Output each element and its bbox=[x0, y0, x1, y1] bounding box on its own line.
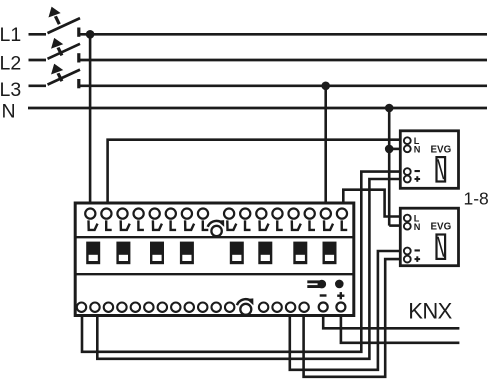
actuator top terminal 16 bbox=[337, 209, 347, 219]
breaker L2 trip arrow bbox=[57, 46, 62, 56]
actuator bottom terminal 5 bbox=[131, 303, 140, 312]
switching actuator U1 outline bbox=[75, 203, 354, 316]
actuator bottom terminal 14 bbox=[272, 303, 281, 312]
actuator channel switch 8 bbox=[323, 242, 337, 265]
actuator bus minus label bbox=[320, 294, 327, 296]
breaker L3 fixed contact bbox=[77, 79, 80, 88]
wire L3 down to actuator terminal 15 bbox=[324, 86, 327, 204]
svg-text:L3: L3 bbox=[0, 79, 21, 101]
wire EVG1 plus to actuator bbox=[97, 179, 400, 359]
svg-text:N: N bbox=[414, 145, 421, 155]
svg-text:N: N bbox=[414, 222, 421, 232]
EVG1 terminal plus bbox=[404, 176, 411, 183]
EVG2 terminal plus bbox=[404, 256, 411, 263]
actuator channel switch 6 bbox=[258, 242, 272, 265]
actuator top manual-turn symbol bbox=[211, 226, 221, 236]
actuator bottom terminal 2 bbox=[90, 303, 99, 312]
breaker L3 trip arrow bbox=[57, 72, 62, 82]
svg-text:L1: L1 bbox=[0, 24, 21, 46]
svg-text:EVG: EVG bbox=[431, 144, 452, 155]
actuator top terminal 4 bbox=[134, 209, 144, 219]
actuator channel switch 5 bbox=[230, 242, 244, 265]
wire L1 incoming bbox=[29, 33, 47, 36]
actuator bus terminal minus bbox=[319, 303, 328, 312]
EVG2 terminal N bbox=[404, 223, 411, 230]
breaker switch L2 blade bbox=[48, 44, 81, 59]
actuator channel switch 4 bbox=[180, 242, 194, 265]
actuator top terminal 2 bbox=[101, 209, 111, 219]
EVG1 pin label minus bbox=[415, 170, 420, 172]
actuator channel switch 1 bbox=[86, 242, 100, 265]
actuator channel switch 3 bbox=[150, 242, 164, 265]
wire KNX bus plus bbox=[341, 315, 460, 343]
actuator programming LED dot bbox=[335, 280, 344, 289]
svg-text:KNX: KNX bbox=[408, 298, 452, 323]
wire actuator terminal 2 to EVG1 L bbox=[108, 140, 401, 204]
actuator bottom terminal 10 bbox=[198, 303, 207, 312]
EVG1 ballast symbol bbox=[437, 157, 446, 181]
wire N down to EVG terminals bbox=[388, 108, 391, 226]
node L1 junction dot bbox=[86, 30, 95, 39]
node N junction dot bbox=[385, 104, 394, 113]
wire KNX bus minus bbox=[323, 315, 459, 328]
actuator bottom terminal 4 bbox=[117, 303, 126, 312]
actuator channel switch 2 bbox=[116, 242, 130, 265]
svg-text:L2: L2 bbox=[0, 52, 21, 74]
wire actuator terminal 16 to EVG2 L bbox=[343, 190, 400, 217]
actuator bottom terminal 13 bbox=[259, 303, 268, 312]
EVG1 terminal N bbox=[404, 145, 411, 152]
actuator top terminal 10 bbox=[240, 209, 250, 219]
svg-text:1-8: 1-8 bbox=[464, 189, 489, 209]
actuator top terminal 11 bbox=[256, 209, 266, 219]
actuator top terminal 8 bbox=[198, 209, 208, 219]
wire EVG2 plus to actuator bbox=[304, 259, 401, 377]
EVG2 terminal L bbox=[404, 215, 411, 222]
wire L3 outgoing bbox=[79, 84, 488, 87]
EVG2 ballast symbol bbox=[437, 235, 446, 259]
wire N tap to EVG1 N bbox=[389, 148, 400, 151]
EVG1 terminal L bbox=[404, 137, 411, 144]
actuator top terminal 13 bbox=[288, 209, 298, 219]
actuator top terminal 12 bbox=[272, 209, 282, 219]
breaker L1 fixed contact bbox=[77, 28, 80, 37]
breaker switch L1 blade bbox=[48, 18, 81, 33]
wire L2 incoming bbox=[29, 59, 47, 62]
breaker L2 fixed contact bbox=[77, 53, 80, 62]
actuator channel switch 7 bbox=[293, 242, 307, 265]
actuator bottom terminal 11 bbox=[212, 303, 221, 312]
breaker switch L3 blade bbox=[48, 70, 81, 85]
actuator top terminal 9 bbox=[224, 209, 234, 219]
wire L1 down to actuator terminal 1 bbox=[89, 34, 92, 204]
wire N line bbox=[28, 107, 487, 110]
svg-text:EVG: EVG bbox=[431, 222, 452, 233]
wire N to EVG2 N bbox=[389, 224, 400, 227]
EVG1 ballast box bbox=[400, 131, 458, 189]
breaker L1 trip arrow bbox=[55, 15, 60, 25]
actuator bottom terminal 15 bbox=[286, 303, 295, 312]
wire L3 incoming bbox=[29, 84, 47, 87]
EVG2 pin label plus bbox=[415, 258, 421, 260]
actuator bottom terminal 1 bbox=[77, 303, 86, 312]
EVG2 pin label minus bbox=[415, 249, 420, 251]
actuator bottom terminal 16 bbox=[299, 303, 308, 312]
EVG2 ballast box bbox=[400, 208, 458, 266]
actuator divider lower bbox=[75, 273, 354, 275]
node N tap dot for EVG1 bbox=[385, 145, 394, 154]
actuator top terminal 7 bbox=[182, 209, 192, 219]
actuator bottom terminal 12 bbox=[225, 303, 234, 312]
actuator bottom terminal 6 bbox=[144, 303, 153, 312]
actuator top terminal 15 bbox=[321, 209, 331, 219]
svg-text:N: N bbox=[2, 101, 16, 123]
actuator bottom terminal 7 bbox=[158, 303, 167, 312]
actuator top terminal 3 bbox=[117, 209, 127, 219]
actuator top terminal 6 bbox=[166, 209, 176, 219]
actuator divider upper bbox=[75, 236, 354, 238]
wire EVG2 minus to actuator bbox=[290, 251, 401, 370]
actuator bottom terminal 3 bbox=[104, 303, 113, 312]
actuator programming flag icon bbox=[307, 280, 322, 283]
EVG2 terminal minus bbox=[404, 248, 411, 255]
actuator bus terminal plus bbox=[336, 303, 345, 312]
EVG1 terminal minus bbox=[404, 168, 411, 175]
actuator top terminal 14 bbox=[305, 209, 315, 219]
node L3 junction dot bbox=[321, 82, 330, 91]
EVG1 pin label plus bbox=[415, 178, 421, 180]
actuator bus plus label bbox=[337, 295, 344, 297]
actuator bottom manual-turn symbol bbox=[240, 304, 251, 315]
actuator bottom terminal 8 bbox=[171, 303, 180, 312]
actuator top terminal 1 bbox=[85, 209, 95, 219]
wire L1 outgoing bbox=[79, 33, 488, 36]
wire L2 outgoing bbox=[79, 59, 488, 62]
actuator bottom terminal 9 bbox=[185, 303, 194, 312]
actuator top terminal 5 bbox=[150, 209, 160, 219]
wire EVG1 minus to actuator bbox=[82, 172, 401, 352]
